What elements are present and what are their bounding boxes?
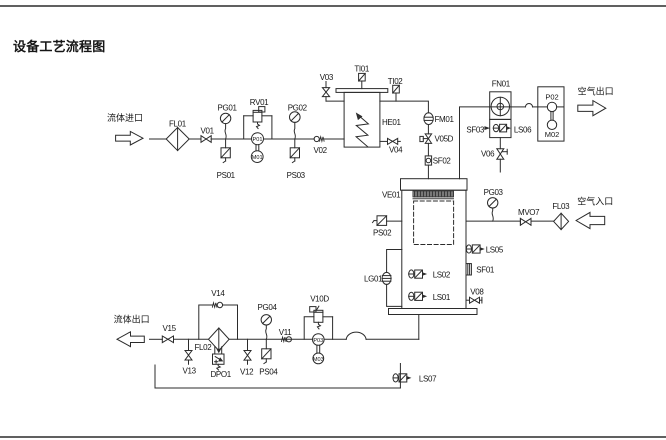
svg-text:PG03: PG03 — [484, 188, 504, 197]
level switch LS01 — [409, 292, 451, 302]
flow arrow fluid inlet — [116, 131, 143, 145]
svg-text:PG01: PG01 — [218, 104, 238, 113]
svg-text:P01: P01 — [253, 137, 263, 143]
wire vessel bottom drop — [418, 315, 420, 340]
svg-text:LS05: LS05 — [486, 246, 504, 255]
motor valve MV07 — [518, 208, 540, 225]
solenoid valve V05D — [420, 134, 454, 144]
vessel VE01 — [382, 179, 477, 315]
pressure gauge PG03 — [484, 188, 504, 221]
heat exchanger HE01 — [336, 89, 402, 148]
wire FL02 to P03 — [229, 338, 313, 340]
pressure switch PS04 — [259, 339, 278, 376]
level switch LS02 — [409, 270, 451, 280]
pressure gauge PG02 — [288, 104, 308, 140]
wire FL01 to V01 — [189, 138, 201, 140]
svg-text:VE01: VE01 — [382, 190, 401, 199]
svg-text:V15: V15 — [163, 324, 177, 333]
svg-text:DPO1: DPO1 — [211, 370, 232, 379]
svg-text:PG04: PG04 — [258, 303, 278, 312]
valve V15 — [162, 324, 176, 342]
border top line — [0, 5, 666, 7]
valve V02 — [314, 136, 328, 155]
wire vessel to MV07 air line — [466, 220, 520, 222]
wire SF02 to vessel top — [427, 165, 429, 179]
level gauge LG01 — [364, 250, 402, 307]
relief valve V10D with bypass loop — [304, 294, 332, 339]
svg-text:V05D: V05D — [435, 135, 454, 144]
vessel internal dashed basket — [414, 201, 454, 245]
svg-text:V03: V03 — [320, 73, 334, 82]
fan FN01 — [490, 79, 511, 119]
sight glass SF02 — [425, 156, 451, 166]
svg-text:TI02: TI02 — [388, 77, 404, 86]
svg-text:LG01: LG01 — [364, 275, 383, 284]
drain valve V13 — [183, 339, 197, 375]
drain header wire — [155, 365, 400, 388]
svg-text:RV01: RV01 — [250, 98, 269, 107]
vessel packing hatch — [413, 191, 454, 199]
valve V08 — [466, 287, 484, 303]
svg-text:V14: V14 — [211, 289, 225, 298]
svg-text:空气入口: 空气入口 — [577, 195, 613, 206]
wire FM01 to V05D — [427, 125, 429, 134]
svg-text:FL03: FL03 — [552, 202, 570, 211]
pressure switch PS02 — [373, 216, 402, 238]
wire V05D to SF02 — [427, 143, 429, 156]
bypass loop with valve V14 — [199, 289, 238, 339]
pressure gauge PG04 — [258, 303, 278, 339]
svg-text:LS07: LS07 — [419, 375, 437, 384]
flow meter FM01 — [424, 113, 455, 125]
sight glass SF01 — [466, 264, 495, 275]
wire outlet to V15 — [150, 338, 163, 340]
filter FL03 — [552, 202, 570, 230]
relief valve RV01 with bypass loop — [244, 98, 272, 139]
flow arrow air outlet — [578, 101, 606, 116]
wire V01 to pump P01 — [211, 138, 251, 140]
pressure gauge PG01 — [218, 104, 238, 140]
svg-text:V01: V01 — [201, 127, 215, 136]
wire LS07 stub — [399, 364, 401, 389]
motor M03 — [313, 345, 324, 364]
temperature indicator TI02 — [388, 77, 404, 101]
valve V03 — [320, 73, 334, 101]
filter FL01 — [166, 120, 189, 151]
valve V06 — [481, 138, 507, 172]
svg-text:MVO7: MVO7 — [518, 208, 540, 217]
pump unit P02/M02 box — [538, 87, 564, 141]
level switch box SF03 / LS06 — [466, 119, 532, 137]
svg-text:流体进口: 流体进口 — [107, 112, 143, 123]
filter FL02 — [195, 328, 230, 352]
svg-text:PS04: PS04 — [259, 367, 278, 376]
svg-text:FL01: FL01 — [169, 120, 187, 129]
svg-text:M02: M02 — [545, 130, 560, 139]
svg-text:流体出口: 流体出口 — [114, 314, 150, 325]
svg-text:LS01: LS01 — [433, 293, 451, 302]
svg-text:V11: V11 — [279, 328, 292, 337]
svg-text:V10D: V10D — [310, 294, 329, 303]
wire P03 to vessel drop with crossing bump — [324, 332, 419, 339]
svg-text:空气出口: 空气出口 — [578, 86, 614, 97]
svg-text:SF02: SF02 — [433, 157, 452, 166]
wire V03 to HE01 left — [326, 100, 344, 102]
wire P01 to HE01 — [264, 138, 315, 140]
svg-text:V12: V12 — [240, 367, 254, 376]
svg-text:SF01: SF01 — [476, 266, 495, 275]
wire V02 to HE01 — [324, 138, 344, 140]
motor M01 — [251, 145, 263, 163]
svg-text:P03: P03 — [313, 338, 323, 344]
drain valve V12 — [240, 339, 254, 376]
pump P01 — [252, 133, 264, 145]
svg-text:V13: V13 — [183, 367, 197, 376]
svg-text:FM01: FM01 — [435, 115, 455, 124]
svg-text:设备工艺流程图: 设备工艺流程图 — [13, 39, 105, 54]
level switch LS05 — [466, 245, 504, 255]
wire FN01 to P02 with crossing bump — [511, 104, 538, 107]
svg-text:PS01: PS01 — [217, 171, 236, 180]
valve V04 — [380, 138, 403, 154]
wire inlet to FL01 — [150, 138, 167, 140]
flow arrow air inlet — [576, 212, 605, 228]
differential pressure gauge DP01 — [211, 347, 232, 379]
svg-text:V04: V04 — [389, 146, 403, 155]
valve V01 — [201, 127, 215, 143]
valve V11 — [279, 328, 292, 342]
svg-text:SF03: SF03 — [466, 126, 485, 135]
svg-text:FN01: FN01 — [492, 79, 511, 88]
svg-text:LS02: LS02 — [433, 271, 451, 280]
svg-text:V08: V08 — [470, 287, 484, 296]
svg-text:PS03: PS03 — [287, 171, 306, 180]
pressure switch PS01 — [217, 139, 236, 180]
svg-text:V06: V06 — [481, 150, 495, 159]
svg-text:V02: V02 — [314, 146, 328, 155]
svg-text:PG02: PG02 — [288, 104, 308, 113]
svg-text:P02: P02 — [545, 92, 558, 101]
svg-text:HE01: HE01 — [382, 118, 402, 127]
svg-text:LS06: LS06 — [514, 126, 532, 135]
svg-text:FL02: FL02 — [195, 343, 213, 352]
svg-text:M03: M03 — [313, 357, 324, 363]
temperature indicator TI01 — [354, 65, 370, 89]
pressure switch PS03 — [287, 139, 306, 180]
wire V15 to FL02 — [174, 338, 209, 340]
wire vessel top right riser to FN01 — [460, 107, 490, 179]
level switch LS07 — [393, 374, 437, 384]
pump P03 — [313, 334, 325, 346]
svg-text:PS02: PS02 — [373, 228, 392, 237]
wire HE01 right to FM01 drop — [380, 101, 429, 113]
border bottom line — [0, 436, 666, 438]
svg-text:M01: M01 — [252, 155, 263, 161]
wire MV07 to FL03 — [531, 220, 554, 222]
flow arrow fluid outlet — [117, 332, 144, 347]
svg-text:TI01: TI01 — [354, 65, 370, 74]
